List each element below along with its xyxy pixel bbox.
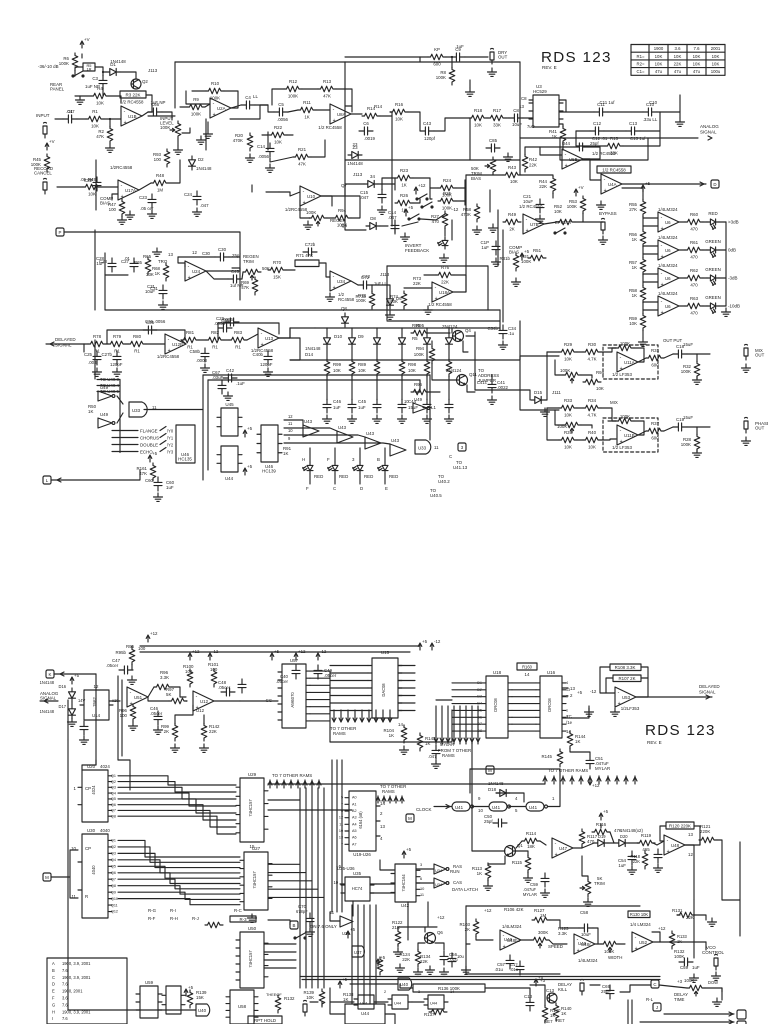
resistor R139 [187, 990, 193, 1008]
wire arrowhead [470, 738, 474, 742]
wire [169, 160, 180, 183]
ground [398, 415, 407, 423]
gate U34 1 [434, 864, 449, 874]
wire frame line 1 [300, 976, 660, 978]
capacitor C31 [159, 285, 167, 299]
connector 3 [458, 443, 466, 451]
capacitor C1 [63, 115, 77, 123]
svg-text:CANCEL: CANCEL [34, 171, 52, 176]
wire [456, 175, 466, 188]
capacitor C58 [201, 348, 209, 362]
svg-text:+5: +5 [274, 649, 280, 654]
wire ram in4 [452, 709, 481, 711]
svg-text:22K: 22K [209, 729, 217, 734]
wire [415, 380, 420, 392]
wire [544, 776, 546, 784]
wire [641, 677, 648, 679]
svg-text:10K: 10K [91, 124, 99, 129]
svg-text:C8: C8 [513, 108, 519, 113]
wire [94, 340, 96, 379]
svg-text:Q7: Q7 [111, 877, 116, 881]
wire arrowhead [606, 777, 610, 781]
op-amp U48 speed [500, 930, 521, 950]
resistor R118 [642, 851, 648, 869]
wire [453, 275, 466, 292]
node legend table [47, 958, 127, 1024]
capacitor C55 [654, 849, 662, 863]
capacitor C30 [215, 253, 229, 261]
resistor R39 [559, 437, 577, 443]
svg-text:HC529: HC529 [533, 89, 547, 94]
op-amp U2A [210, 98, 231, 118]
capacitor C48 [264, 351, 272, 365]
gate U43 2 [337, 425, 353, 443]
wire [267, 132, 269, 150]
wire arrowhead [346, 718, 350, 722]
wire [262, 134, 268, 136]
resistor matrix R91 [446, 359, 452, 377]
wire [330, 912, 340, 921]
wire [345, 56, 428, 58]
wire [636, 667, 648, 697]
wire [67, 700, 69, 740]
svg-text:.003: .003 [88, 360, 97, 365]
wire [477, 706, 479, 744]
svg-text:47K: 47K [298, 162, 306, 167]
diode D6 [387, 295, 394, 309]
svg-text:R33: R33 [564, 398, 573, 403]
svg-text:B: B [377, 457, 380, 462]
wire [104, 118, 121, 120]
svg-text:+12: +12 [437, 915, 445, 920]
svg-text:1900, 3.9, 2001: 1900, 3.9, 2001 [62, 961, 91, 966]
svg-text:R39: R39 [564, 430, 573, 435]
svg-text:10: 10 [478, 808, 483, 813]
svg-text:SIGNAL: SIGNAL [55, 343, 72, 348]
svg-text:U8A: U8A [337, 112, 346, 117]
svg-text:K: K [49, 672, 52, 677]
wire to edge 1 [664, 1013, 734, 1015]
svg-text:Q8: Q8 [111, 814, 116, 818]
svg-text:47u: 47u [655, 69, 663, 74]
svg-text:.1u: .1u [508, 331, 515, 336]
wire [555, 360, 563, 375]
svg-text:7.6: 7.6 [62, 1016, 68, 1021]
ground [536, 215, 545, 223]
wire [336, 760, 338, 912]
svg-text:J113: J113 [148, 68, 158, 73]
svg-text:SPEED: SPEED [548, 944, 563, 949]
svg-text:5K: 5K [166, 692, 171, 697]
node +5 [70, 673, 79, 684]
svg-text:100K: 100K [59, 61, 69, 66]
wire [606, 678, 613, 693]
node +12 [588, 778, 600, 788]
svg-text:1uF NP: 1uF NP [151, 100, 166, 105]
svg-text:RAMS: RAMS [442, 753, 455, 758]
svg-text:R114: R114 [526, 831, 537, 836]
node +5 [338, 977, 347, 988]
svg-text:600: 600 [651, 436, 659, 441]
wire [643, 281, 658, 283]
svg-text:U41: U41 [455, 805, 464, 810]
resistor R100 [187, 669, 193, 687]
LED [328, 462, 338, 474]
node +12 [146, 631, 158, 642]
resistor feedback 100K [616, 345, 634, 351]
svg-text:100K: 100K [436, 75, 446, 80]
capacitor C57 [506, 955, 514, 969]
IC U16 RAM [540, 676, 562, 738]
svg-text:10K: 10K [693, 54, 701, 59]
wire mux out 1 [268, 872, 306, 874]
svg-text:10K: 10K [564, 357, 572, 362]
wire [82, 765, 96, 770]
ground [159, 301, 168, 309]
wire [553, 776, 555, 784]
svg-text:10K: 10K [712, 62, 720, 67]
resistor R94 b [429, 346, 435, 364]
wire [109, 700, 120, 702]
svg-text:2: 2 [570, 693, 573, 698]
svg-text:R119: R119 [641, 833, 652, 838]
wire [106, 343, 108, 345]
ground [432, 760, 441, 768]
wire [465, 56, 488, 58]
wire [583, 221, 603, 223]
ground [304, 221, 313, 229]
wire cnt5 [118, 805, 236, 820]
svg-text:120pF: 120pF [260, 362, 273, 367]
svg-text:10K: 10K [274, 140, 282, 145]
wire [321, 1002, 323, 1006]
svg-text:100K: 100K [684, 978, 694, 983]
diode D15 [531, 397, 545, 404]
ground [264, 368, 273, 376]
wire arrowhead [303, 781, 307, 785]
capacitor C51 [586, 755, 594, 769]
svg-text:CAS: CAS [453, 880, 462, 885]
svg-text:C40b: C40b [253, 352, 264, 357]
svg-text:.03uF: .03uF [212, 375, 224, 380]
IC U19-U26 RAM [349, 791, 376, 851]
wire cnt4 [118, 799, 236, 813]
capacitor C14 2 [391, 220, 399, 234]
wire [653, 841, 664, 845]
wire arrowhead [597, 777, 601, 781]
wire [391, 160, 393, 226]
wire [370, 883, 376, 885]
wire [146, 95, 152, 112]
node +5 [270, 649, 279, 660]
svg-text:4040: 4040 [91, 865, 96, 875]
gate U33 [129, 402, 147, 417]
wire [679, 249, 685, 251]
svg-text:7.6: 7.6 [694, 46, 701, 51]
ground [248, 914, 257, 922]
svg-text:+V: +V [49, 139, 55, 144]
wire [224, 91, 238, 108]
ground [512, 278, 521, 286]
svg-text:R71 47K: R71 47K [296, 253, 313, 258]
wire [643, 309, 658, 311]
capacitor C59b [679, 958, 693, 966]
wire [376, 348, 378, 360]
svg-text:F: F [52, 996, 55, 1001]
svg-text:10K: 10K [564, 445, 572, 450]
node +5 [346, 927, 355, 938]
svg-text:MYLAR: MYLAR [595, 766, 610, 771]
node +5 [599, 809, 608, 820]
wire [600, 667, 615, 693]
wire [642, 216, 644, 230]
wire [444, 228, 446, 236]
op-amp U8A [330, 104, 351, 124]
svg-text:C58b: C58b [190, 349, 201, 354]
svg-text:-: - [333, 274, 335, 280]
diode D20 [615, 840, 629, 847]
wire stub [205, 119, 207, 150]
wire [240, 700, 278, 702]
transistor Q4 [453, 331, 464, 342]
resistor R43 [503, 172, 521, 178]
wire arrowhead [376, 797, 380, 801]
svg-text:-: - [635, 935, 637, 941]
capacitor C24 [193, 191, 201, 205]
wire [351, 376, 353, 400]
wire [469, 769, 471, 793]
wire frame left [465, 906, 467, 974]
node R160 box [517, 663, 537, 670]
wire [679, 277, 685, 279]
svg-text:R26: R26 [400, 193, 409, 198]
wire mux out 4 [268, 896, 324, 898]
wire [559, 769, 561, 806]
resistor R136 box [413, 984, 485, 992]
capacitor C58 p2 [579, 924, 593, 932]
wire mux3 out 2 [264, 959, 296, 961]
svg-text:C42: C42 [226, 368, 235, 373]
svg-text:D14: D14 [305, 352, 314, 357]
svg-text:10K: 10K [674, 54, 682, 59]
wire arrowhead [296, 781, 300, 785]
svg-text:TIME: TIME [674, 997, 685, 1002]
wire [590, 984, 600, 986]
svg-text:+: + [124, 120, 127, 126]
wire [386, 266, 388, 320]
wire analog in [40, 700, 58, 702]
svg-text:+12: +12 [150, 631, 158, 636]
ground [424, 306, 433, 314]
resistor R101 [211, 669, 217, 687]
diode D4 [364, 181, 378, 188]
svg-text:/Y3: /Y3 [167, 450, 174, 455]
svg-text:470K: 470K [233, 138, 243, 143]
svg-text:R63: R63 [690, 296, 699, 301]
wire [269, 780, 271, 788]
wire [316, 109, 330, 111]
wire [469, 80, 471, 88]
svg-text:.0019: .0019 [364, 136, 376, 141]
wire [206, 271, 228, 279]
svg-text:3: 3 [418, 989, 420, 994]
svg-text:+: + [333, 118, 336, 124]
node +5 [243, 426, 252, 437]
resistor R37 [646, 428, 664, 434]
wire [459, 706, 461, 744]
wire arrowhead [360, 718, 364, 722]
svg-text:+5: +5 [350, 927, 356, 932]
ground [128, 676, 137, 684]
diode matrix D13 [424, 334, 431, 348]
resistor R94 mix [583, 379, 601, 385]
wire [139, 183, 151, 190]
svg-text:+: + [503, 944, 506, 950]
svg-text:1900, 2001: 1900, 2001 [62, 989, 83, 994]
svg-text:U15: U15 [381, 650, 390, 655]
svg-text:REV. E: REV. E [647, 740, 662, 745]
svg-text:R37: R37 [651, 421, 660, 426]
wire [309, 474, 311, 484]
svg-text:LL: LL [253, 94, 258, 99]
svg-text:RDS 123: RDS 123 [541, 49, 612, 66]
svg-text:F: F [306, 486, 309, 491]
wire [559, 111, 594, 113]
svg-text:34: 34 [370, 174, 375, 179]
gate U41 3 [526, 802, 548, 811]
svg-text:R3 22K: R3 22K [125, 92, 140, 97]
svg-text:GREEN: GREEN [705, 295, 721, 300]
wire [491, 375, 493, 380]
wire [247, 334, 258, 340]
ground [197, 136, 206, 144]
wire ram mid4 [512, 709, 536, 711]
wire [638, 431, 646, 435]
svg-text:Q2: Q2 [111, 780, 116, 784]
resistor R41 [560, 126, 566, 144]
svg-text:AM6070: AM6070 [290, 692, 295, 708]
svg-text:TO 7 OTHER RAMS: TO 7 OTHER RAMS [272, 773, 312, 778]
svg-text:TRIM: TRIM [594, 881, 605, 886]
svg-text:R106 42K: R106 42K [504, 907, 524, 912]
svg-text:10K: 10K [395, 117, 403, 122]
wire bus link [330, 710, 452, 742]
svg-text:C5: C5 [278, 102, 284, 107]
svg-text:U18A: U18A [439, 290, 450, 295]
ground [118, 216, 127, 224]
node +12 [414, 183, 426, 194]
wire arrowhead [708, 136, 712, 140]
resistor R5 [83, 63, 95, 71]
wire [677, 914, 680, 916]
diode matrix D9 [324, 334, 331, 348]
ground [693, 376, 702, 384]
svg-text:2001: 2001 [711, 46, 721, 51]
svg-text:-: - [333, 107, 335, 113]
resistor R96 [411, 389, 429, 395]
jack [43, 179, 47, 195]
wire [118, 760, 130, 790]
resistor R13 [318, 86, 336, 92]
resistor R57 [640, 257, 646, 275]
wire [326, 348, 328, 360]
wire [311, 788, 313, 988]
capacitor C23 [148, 194, 156, 208]
resistor R140 [542, 1005, 548, 1023]
svg-text:INPUT: INPUT [36, 113, 50, 118]
svg-text:+: + [526, 228, 529, 234]
svg-text:U5B: U5B [569, 157, 578, 162]
svg-text:R145: R145 [542, 754, 553, 759]
svg-text:R78: R78 [93, 334, 102, 339]
svg-text:OUT: OUT [498, 55, 508, 60]
svg-text:10K: 10K [333, 368, 341, 373]
wire ram tap [375, 710, 377, 722]
svg-text:U44: U44 [394, 1001, 402, 1006]
svg-text:R137: R137 [424, 1012, 435, 1017]
wire ram in0 [452, 682, 481, 684]
svg-text:U33: U33 [418, 446, 427, 451]
svg-text:465: 465 [642, 847, 650, 852]
IC U18 RAM [486, 676, 508, 738]
svg-text:U34: U34 [337, 279, 346, 284]
svg-text:RDS 123: RDS 123 [645, 722, 716, 739]
wire [627, 1000, 629, 1024]
capacitor matrix C44 [348, 399, 356, 413]
svg-text:3: 3 [420, 862, 422, 867]
resistor R16 [390, 109, 408, 115]
wire [350, 983, 398, 985]
ground [541, 889, 550, 897]
resistor R122 p2 [395, 929, 401, 947]
svg-text:22K: 22K [441, 280, 449, 285]
potentiometer [687, 985, 705, 996]
svg-text:R94: R94 [596, 370, 605, 375]
svg-text:100K: 100K [567, 204, 577, 209]
svg-text:D: D [360, 486, 363, 491]
wire [199, 339, 206, 341]
wire [465, 266, 467, 292]
svg-text:-: - [618, 690, 620, 696]
wire [97, 379, 120, 381]
svg-text:SIGNAL: SIGNAL [699, 690, 716, 695]
wire [471, 706, 473, 744]
ground [68, 718, 77, 726]
svg-text:C10: C10 [649, 100, 658, 105]
svg-text:1uF: 1uF [618, 863, 626, 868]
svg-text:DATA LATCH: DATA LATCH [452, 887, 478, 892]
svg-text:Q7: Q7 [111, 809, 116, 813]
svg-text:R13: R13 [323, 79, 332, 84]
svg-text:100: 100 [138, 646, 146, 651]
svg-text:22K: 22K [674, 62, 682, 67]
wire [642, 330, 644, 338]
wire [345, 61, 520, 63]
svg-text:7uO: 7uO [527, 124, 535, 129]
wire [311, 140, 325, 157]
ground [499, 341, 508, 349]
svg-text:1/2RC4558: 1/2RC4558 [110, 165, 133, 170]
svg-text:10K: 10K [655, 62, 663, 67]
svg-text:R83: R83 [234, 330, 243, 335]
svg-text:HC74: HC74 [352, 886, 363, 891]
svg-text:1uF: 1uF [333, 405, 341, 410]
wire connector K [54, 673, 96, 675]
wire [334, 448, 336, 462]
wire [407, 902, 409, 940]
svg-text:11: 11 [434, 445, 439, 450]
resistor R45 [44, 154, 50, 172]
